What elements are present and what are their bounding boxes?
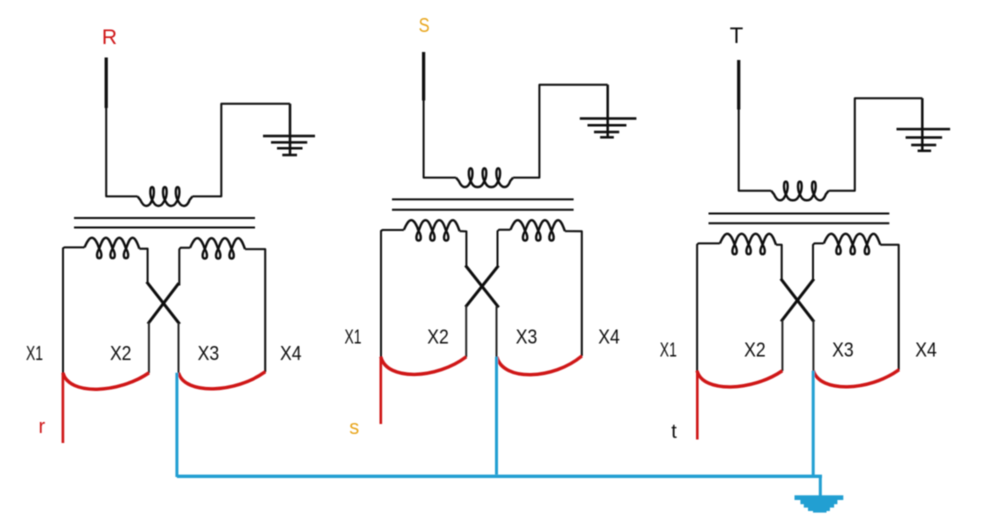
secondary lead t wire [696, 371, 699, 440]
svg-text:X3: X3 [516, 326, 538, 349]
HV lead stub R [105, 58, 108, 109]
primary winding P2 (T2) [456, 168, 513, 187]
wire primary left T2 [424, 99, 456, 178]
wire secondary B left lead T3 [813, 243, 824, 280]
svg-text:X1: X1 [345, 326, 362, 349]
terminal lead X2 (T1) [148, 323, 150, 374]
blue wire X3 to ground (T3) [812, 371, 815, 477]
crossover diagonal A (T1) [148, 283, 179, 323]
secondary winding S3b (T3) [824, 234, 881, 254]
svg-text:X3: X3 [832, 339, 854, 362]
secondary winding S3a (T3) [720, 234, 776, 254]
blue neutral bus wire [177, 475, 822, 478]
red jumper X3-X4 (T1) [179, 372, 266, 389]
wire primary left T3 [739, 108, 772, 191]
core lines T1 [74, 218, 255, 228]
ground symbol G3 (T3 primary neutral) [897, 98, 951, 151]
svg-text:X3: X3 [198, 342, 220, 365]
HV lead stub S [422, 52, 425, 101]
core lines T3 [709, 214, 890, 224]
secondary lead s wire [379, 357, 382, 424]
wire secondary B left lead T1 [179, 248, 190, 286]
blue wire X3 to bus (T2) [495, 357, 498, 475]
svg-text:X4: X4 [598, 326, 620, 349]
wire S1a right lead T1 [139, 249, 147, 284]
secondary winding S2a (T2) [404, 220, 460, 240]
wire secondary B left lead T2 [498, 230, 511, 267]
wire S2a right lead T2 [460, 231, 467, 267]
svg-text:X1: X1 [660, 339, 677, 362]
secondary winding S2b (T2) [510, 220, 565, 240]
crossover diagonal B (T3) [782, 280, 813, 320]
primary winding P1 (T1) [138, 187, 193, 206]
svg-text:S: S [419, 15, 430, 37]
wire secondary A left lead T3 [697, 243, 720, 371]
terminal lead X3 (T3) [812, 321, 814, 371]
red jumper X3-X4 (T3) [813, 370, 899, 387]
terminal lead X3 (T1) [178, 323, 180, 373]
secondary lead r wire [62, 373, 65, 443]
red jumper X1-X2 (T1) [63, 373, 149, 389]
svg-text:X4: X4 [915, 339, 937, 362]
primary winding P3 (T3) [771, 182, 829, 201]
wire primary right T2 [513, 85, 608, 178]
crossover diagonal A (T2) [466, 267, 497, 307]
core lines T2 [392, 199, 574, 209]
wire primary left T1 [106, 106, 137, 196]
blue wire X3 to bus (T1) [175, 373, 178, 477]
blue earth ground symbol [795, 495, 844, 512]
secondary winding S1a (T1) [85, 238, 140, 258]
wire S2b right lead T2 [565, 231, 582, 356]
svg-text:X1: X1 [26, 342, 43, 365]
crossover diagonal A (T3) [782, 280, 813, 321]
terminal lead X3 (T2) [496, 306, 498, 357]
blue ground stem [819, 476, 822, 496]
red jumper X1-X2 (T2) [381, 357, 466, 375]
svg-text:X2: X2 [427, 326, 449, 349]
terminal lead X2 (T2) [465, 306, 467, 357]
svg-text:X2: X2 [744, 339, 766, 362]
ground symbol G2 (T2 primary neutral) [580, 85, 637, 138]
crossover diagonal B (T1) [149, 284, 178, 322]
secondary winding S1b (T1) [190, 238, 245, 258]
terminal lead X2 (T3) [781, 320, 783, 371]
wire S3b right lead T3 [880, 245, 898, 370]
svg-text:r: r [38, 416, 45, 438]
svg-text:X2: X2 [110, 342, 132, 365]
wire secondary A left lead T2 [381, 230, 404, 357]
svg-text:R: R [102, 26, 117, 49]
svg-text:X4: X4 [280, 342, 302, 365]
svg-text:s: s [349, 417, 359, 439]
red jumper X3-X4 (T2) [497, 356, 582, 375]
red jumper X1-X2 (T3) [697, 371, 782, 387]
svg-text:T: T [730, 23, 743, 48]
wire secondary A left lead T1 [63, 247, 85, 373]
wire primary right T3 [829, 98, 923, 191]
ground symbol G1 (T1 primary neutral) [263, 104, 315, 155]
crossover diagonal B (T2) [467, 267, 498, 306]
HV lead stub T [737, 60, 740, 110]
wire S1b right lead T1 [245, 249, 265, 372]
wire primary right T1 [193, 104, 291, 197]
svg-text:t: t [671, 421, 677, 443]
wire S3a right lead T3 [776, 245, 782, 281]
